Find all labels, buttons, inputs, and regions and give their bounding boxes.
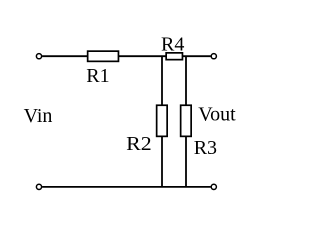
wire R2 to bottom rail <box>161 136 163 187</box>
bottom rail wire <box>42 186 211 188</box>
terminal top-left <box>36 54 41 59</box>
wire R4 to Vout terminal <box>183 55 211 57</box>
resistor R4 <box>166 53 182 60</box>
svg-text:R4: R4 <box>161 34 184 56</box>
wire R1 to R4 <box>119 55 167 57</box>
resistor R1 <box>88 51 119 61</box>
wire R3 to bottom rail <box>185 136 187 187</box>
wire node B down to R3 <box>185 56 187 105</box>
resistor R3 <box>181 105 192 136</box>
svg-text:R3: R3 <box>194 137 217 159</box>
wire node A down to R2 <box>161 56 163 105</box>
svg-text:Vin: Vin <box>24 105 53 127</box>
terminal bottom-left <box>36 184 41 189</box>
wire Vin to R1 <box>42 55 88 57</box>
svg-text:R2: R2 <box>126 133 152 155</box>
svg-text:R1: R1 <box>86 65 109 87</box>
terminal top-right <box>211 54 216 59</box>
resistor R2 <box>157 105 168 136</box>
terminal bottom-right <box>211 184 216 189</box>
svg-text:Vout: Vout <box>198 103 236 125</box>
